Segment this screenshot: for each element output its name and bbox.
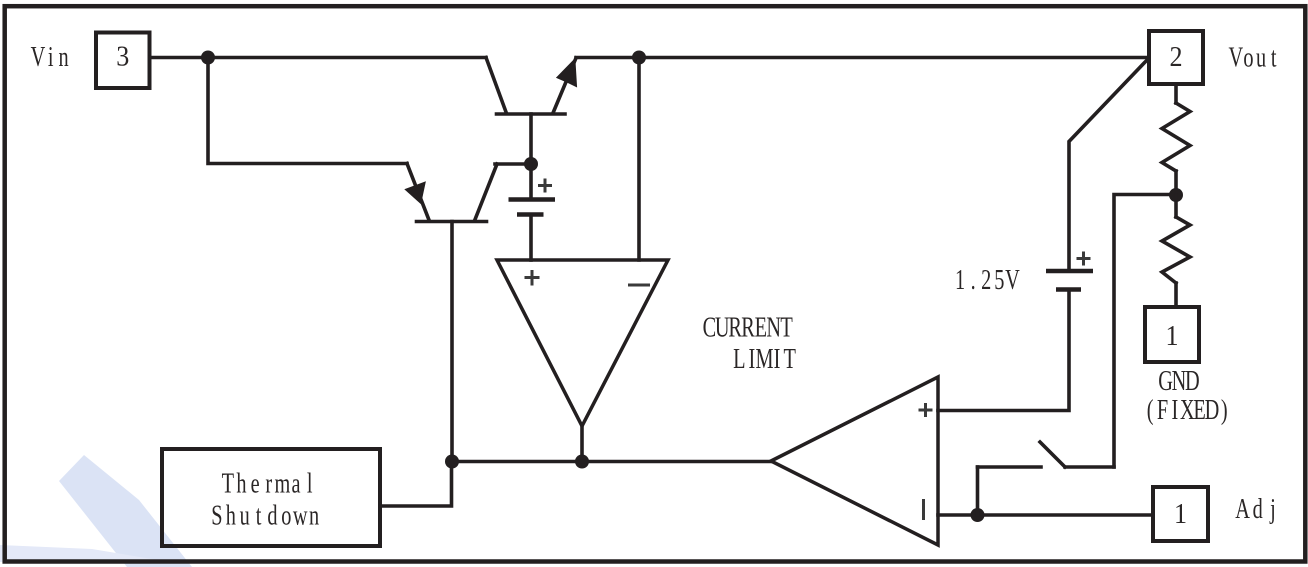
svg-text:i: i bbox=[48, 42, 54, 73]
battery B1 bbox=[509, 164, 556, 260]
svg-text:1: 1 bbox=[1165, 319, 1178, 352]
svg-text:5: 5 bbox=[994, 265, 1004, 296]
resistor R2 bbox=[1162, 217, 1190, 283]
svg-text:T: T bbox=[780, 312, 792, 343]
svg-text:r: r bbox=[265, 468, 272, 499]
node A (Vin junction) bbox=[201, 51, 215, 65]
svg-text:d: d bbox=[1253, 494, 1264, 525]
svg-text:d: d bbox=[267, 500, 278, 531]
wire top rail Q2 emitter to Vout pin bbox=[576, 56, 1147, 60]
svg-text:C: C bbox=[703, 312, 717, 343]
svg-text:I: I bbox=[774, 344, 781, 375]
wire node A down to Q1 emitter bbox=[208, 58, 407, 164]
node F (Adj feedback junction) bbox=[971, 508, 985, 522]
node G (divider tap) bbox=[1169, 188, 1183, 202]
resistor R1 bbox=[1162, 103, 1190, 171]
svg-text:M: M bbox=[755, 344, 773, 375]
svg-text:F: F bbox=[1157, 395, 1168, 426]
wire thermal shutdown to node E bbox=[380, 462, 452, 507]
svg-text:V: V bbox=[31, 42, 46, 73]
svg-text:h: h bbox=[226, 500, 237, 531]
svg-text:D: D bbox=[1185, 366, 1200, 397]
svg-text:m: m bbox=[274, 468, 290, 499]
wire U1 output to node D bbox=[580, 426, 584, 461]
wire U2 inverting input to Adj pin bbox=[938, 513, 1151, 517]
pin label Adj bbox=[1235, 494, 1276, 525]
wire bus node E to U2 output bbox=[452, 460, 771, 464]
svg-text:(: ( bbox=[1147, 395, 1154, 426]
svg-text:o: o bbox=[1243, 42, 1253, 73]
svg-text:a: a bbox=[292, 468, 301, 499]
svg-text:N: N bbox=[766, 312, 781, 343]
pin box 1 (GND) bbox=[1145, 307, 1199, 362]
svg-text:u: u bbox=[1256, 42, 1267, 73]
wire top rail node A to Q2 collector bbox=[208, 56, 486, 60]
switch S1 bbox=[978, 442, 1115, 515]
transistor Q1 (PNP driver) bbox=[404, 164, 531, 462]
pin label Vin bbox=[31, 42, 69, 73]
svg-text:2: 2 bbox=[981, 265, 991, 296]
wire node B to U1 inverting input bbox=[637, 58, 641, 261]
wire reference to Vout pin bbox=[1069, 60, 1147, 269]
wire R1 to node G bbox=[1174, 171, 1178, 195]
thermal shutdown block bbox=[162, 449, 380, 546]
value label 1.25V bbox=[955, 265, 1020, 296]
svg-text:w: w bbox=[293, 500, 308, 531]
svg-text:R: R bbox=[741, 312, 755, 343]
svg-text:.: . bbox=[971, 265, 976, 296]
svg-text:2: 2 bbox=[1170, 40, 1183, 73]
wire U2 noninverting input to reference bbox=[938, 291, 1069, 411]
pin box 2 (Vout) bbox=[1149, 31, 1203, 84]
svg-text:j: j bbox=[1269, 494, 1275, 525]
svg-text:I: I bbox=[748, 344, 755, 375]
svg-text:S: S bbox=[211, 500, 222, 531]
svg-text:1: 1 bbox=[955, 265, 965, 296]
svg-text:G: G bbox=[1158, 366, 1173, 397]
svg-text:t: t bbox=[1271, 42, 1277, 73]
svg-text:X: X bbox=[1180, 395, 1195, 426]
svg-text:): ) bbox=[1221, 395, 1228, 426]
svg-text:1: 1 bbox=[1174, 497, 1187, 530]
op-amp U1 (current limit comparator) bbox=[497, 260, 668, 426]
svg-text:E: E bbox=[755, 312, 767, 343]
svg-text:T: T bbox=[222, 468, 234, 499]
op-amp U2 (error amplifier) bbox=[771, 377, 938, 545]
svg-text:n: n bbox=[309, 500, 320, 531]
svg-text:N: N bbox=[1172, 366, 1187, 397]
transistor Q2 (NPN pass transistor) bbox=[486, 58, 577, 165]
svg-text:3: 3 bbox=[116, 39, 129, 72]
svg-text:D: D bbox=[1205, 395, 1220, 426]
svg-text:V: V bbox=[1228, 42, 1243, 73]
node C (Q2 base junction) bbox=[524, 157, 538, 171]
pin label GND (FIXED) bbox=[1147, 366, 1228, 426]
node E (Q1 base / thermal junction) bbox=[445, 455, 459, 469]
pin label Vout bbox=[1228, 42, 1276, 73]
battery B2 (1.25V reference) bbox=[1046, 252, 1093, 290]
wire R2 to GND pin bbox=[1174, 283, 1178, 305]
svg-text:L: L bbox=[733, 344, 745, 375]
node D (bus junction) bbox=[575, 455, 589, 469]
svg-text:e: e bbox=[251, 468, 260, 499]
svg-text:l: l bbox=[307, 468, 313, 499]
label CURRENT LIMIT bbox=[703, 312, 796, 375]
svg-text:n: n bbox=[58, 42, 69, 73]
wire Vin pin to node A bbox=[150, 56, 209, 60]
svg-text:E: E bbox=[1193, 395, 1205, 426]
svg-text:t: t bbox=[256, 500, 262, 531]
node B (rail junction to current limit) bbox=[632, 51, 646, 65]
pin box 1 (Adj) bbox=[1153, 487, 1208, 541]
svg-text:A: A bbox=[1235, 494, 1250, 525]
wire switch to divider tap node G bbox=[1114, 195, 1169, 468]
svg-text:R: R bbox=[728, 312, 742, 343]
wire node G to R2 bbox=[1174, 195, 1178, 217]
svg-text:T: T bbox=[783, 344, 795, 375]
svg-text:V: V bbox=[1005, 265, 1020, 296]
svg-text:h: h bbox=[236, 468, 247, 499]
svg-text:I: I bbox=[1171, 395, 1178, 426]
svg-text:o: o bbox=[281, 500, 291, 531]
svg-text:u: u bbox=[240, 500, 251, 531]
svg-text:U: U bbox=[715, 312, 730, 343]
wire Vout pin to R1 bbox=[1174, 86, 1178, 103]
pin box 3 (Vin) bbox=[96, 33, 150, 89]
